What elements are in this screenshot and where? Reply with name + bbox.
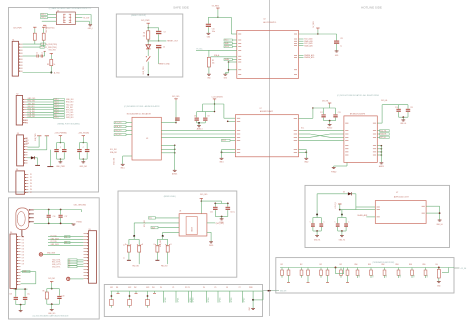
capacitor C9	[204, 112, 206, 118]
wire crystal top bus	[34, 209, 82, 211]
svg-text:SCL5: SCL5	[225, 40, 229, 42]
wire RESET_OUT	[148, 40, 166, 42]
svg-text:IN2: IN2	[134, 287, 137, 289]
svg-text:5V_REG: 5V_REG	[212, 5, 220, 7]
svg-text:ALD212900PCL: ALD212900PCL	[263, 21, 276, 24]
svg-text:RXD_I: RXD_I	[54, 99, 59, 101]
capacitor C21	[227, 203, 229, 206]
capacitor C15	[407, 105, 409, 109]
svg-text:C10: C10	[212, 29, 215, 31]
connector X2	[16, 96, 22, 126]
svg-text:SCLM: SCLM	[225, 46, 230, 48]
svg-text:PGND2: PGND2	[331, 171, 336, 173]
svg-text:(C) SAFE ISOLATED UART INTERFA: (C) SAFE ISOLATED UART INTERFACE RS232 T…	[49, 7, 92, 10]
svg-text:(TERMINATION NETWORK): (TERMINATION NETWORK)	[373, 261, 395, 264]
svg-text:IO2: IO2	[22, 242, 24, 244]
svg-text:P7: P7	[30, 192, 32, 194]
svg-text:4.7k R_B: 4.7k R_B	[335, 202, 337, 208]
svg-text:P6: P6	[30, 189, 32, 191]
supply bar 5V0 under U1 left	[43, 24, 46, 26]
svg-text:RN1: RN1	[368, 264, 371, 266]
wire U1 right pin1 to gnd	[75, 14, 91, 16]
svg-text:C15: C15	[410, 107, 413, 109]
svg-text:IO4: IO4	[413, 275, 415, 278]
svg-text:GND_I: GND_I	[120, 168, 125, 170]
junction reset mid	[148, 40, 149, 41]
svg-text:SCL_ISO: SCL_ISO	[144, 220, 146, 227]
svg-text:P2: P2	[30, 177, 32, 179]
frame F6 bottom-middle terminator strip	[104, 285, 262, 317]
op U3	[132, 117, 161, 160]
capacitor C10	[206, 24, 211, 25]
filter group F3-A	[14, 288, 28, 290]
gnd cluster HL	[324, 120, 336, 122]
svg-text:(C) 2015 ISOLATED UART AUDIO M: (C) 2015 ISOLATED UART AUDIO MODULE	[33, 314, 70, 317]
net flag row 1	[54, 98, 65, 100]
svg-text:P0: P0	[160, 287, 162, 289]
svg-text:RX: RX	[65, 242, 67, 244]
capacitor C17	[60, 209, 62, 211]
wire to C10	[208, 16, 218, 18]
junction on TXD row	[50, 72, 52, 74]
net flag row 2	[54, 101, 65, 103]
capacitor C3	[156, 31, 161, 32]
svg-text:1k: 1k	[124, 257, 126, 259]
svg-text:1k: 1k	[54, 64, 56, 66]
wire U2 lower-left pins	[229, 61, 237, 63]
net flag TXD_ISO	[41, 17, 48, 19]
svg-text:IO3: IO3	[22, 245, 24, 247]
ground PGND1	[72, 223, 76, 225]
svg-text:GPIO7: GPIO7	[244, 298, 246, 303]
svg-text:RN3: RN3	[396, 264, 399, 266]
svg-text:SAFE SIDE: SAFE SIDE	[173, 6, 189, 10]
svg-text:5V0_ISO: 5V0_ISO	[48, 278, 56, 280]
gnd bar row8	[35, 164, 40, 166]
svg-text:RN4: RN4	[409, 264, 412, 266]
svg-text:P1_TXD: P1_TXD	[51, 235, 58, 237]
svg-text:P1: P1	[41, 47, 43, 49]
connector X3	[17, 135, 24, 166]
svg-text:(5V0_ISO): (5V0_ISO)	[216, 223, 224, 225]
microphone MK1	[16, 208, 29, 230]
svg-text:C21 1u: C21 1u	[230, 211, 235, 213]
svg-text:IO9: IO9	[22, 263, 24, 265]
wire U5 top right to supply	[377, 122, 382, 124]
svg-text:ISO1540DWR I2C ISOLATOR: ISO1540DWR I2C ISOLATOR	[127, 113, 152, 116]
wire H1	[43, 253, 60, 255]
svg-text:+5V0_ISO(M): +5V0_ISO(M)	[78, 132, 89, 134]
svg-text:GPIO1: GPIO1	[177, 298, 179, 303]
svg-text:TXD_I: TXD_I	[41, 17, 46, 19]
svg-text:RX2: RX2	[128, 287, 131, 289]
svg-text:P5: P5	[215, 287, 217, 289]
svg-text:BR KELVILT2/DFN: BR KELVILT2/DFN	[350, 113, 366, 115]
capacitor C13	[335, 108, 337, 114]
svg-text:PB2_ISO: PB2_ISO	[132, 266, 139, 268]
svg-text:P4: P4	[203, 287, 205, 289]
svg-text:A_RXD(TXD): A_RXD(TXD)	[46, 43, 57, 46]
ground C11	[335, 50, 339, 52]
svg-text:GPIO5: GPIO5	[219, 298, 221, 303]
capacitor C12	[323, 108, 325, 114]
svg-text:GPIO3: GPIO3	[193, 298, 195, 303]
svg-text:RTS_I: RTS_I	[54, 104, 59, 106]
svg-text:X4: X4	[10, 232, 12, 234]
svg-text:C9: C9	[208, 115, 210, 117]
svg-text:IN1: IN1	[116, 287, 119, 289]
svg-text:RX0_LVTTL: RX0_LVTTL	[52, 262, 61, 264]
svg-text:(BIDIR LEVEL): (BIDIR LEVEL)	[164, 196, 176, 198]
capacitor C14	[398, 105, 400, 109]
svg-text:GPIO0: GPIO0	[165, 298, 167, 303]
svg-text:5V0_HL: 5V0_HL	[381, 100, 388, 102]
svg-text:DSR_ISO: DSR_ISO	[66, 117, 74, 119]
svg-text:P3: P3	[188, 287, 190, 289]
svg-text:SCL_ISO: SCL_ISO	[115, 122, 122, 124]
svg-text:C18: C18	[9, 294, 12, 296]
wire U6 right 5V0	[207, 222, 215, 224]
svg-text:R3: R3	[47, 64, 49, 66]
gnd F4 caps	[215, 216, 228, 218]
ground R5	[207, 73, 211, 75]
svg-text:RN5: RN5	[423, 264, 426, 266]
resistor R3	[50, 59, 53, 65]
svg-text:ADUM1250ARZ: ADUM1250ARZ	[260, 110, 274, 113]
svg-text:P4: P4	[30, 183, 32, 185]
svg-text:10u: 10u	[27, 294, 30, 296]
frame F4 i2c level box	[118, 191, 237, 277]
svg-text:GND2: GND2	[304, 161, 308, 163]
svg-text:SCL2: SCL2	[222, 140, 226, 142]
svg-text:(SERIAL PORT ISOLATED): (SERIAL PORT ISOLATED)	[58, 123, 81, 126]
stem MK1	[21, 230, 23, 237]
svg-text:IO1: IO1	[22, 239, 24, 241]
net flag row 8	[54, 116, 65, 118]
svg-text:RESET_OUT: RESET_OUT	[167, 41, 179, 43]
svg-text:5V0_ISO: 5V0_ISO	[200, 194, 208, 196]
net flag row 3	[54, 104, 65, 106]
svg-text:IO2: IO2	[386, 275, 388, 278]
wire U3 pin to rail	[161, 122, 176, 124]
svg-text:RX0_ISO: RX0_ISO	[115, 130, 122, 132]
frame F1 safe-side upper-left sheet	[9, 8, 99, 193]
net flag row 4	[54, 106, 65, 108]
wire X2 row 3	[26, 104, 53, 106]
resistor R4	[147, 28, 149, 31]
svg-text:R: R	[142, 244, 143, 246]
capacitor C8	[196, 112, 198, 118]
svg-text:C20: C20	[210, 211, 213, 213]
svg-text:HOTLINE SIDE: HOTLINE SIDE	[361, 6, 382, 10]
svg-text:SCL_ISO: SCL_ISO	[110, 149, 117, 151]
svg-text:GPIO6: GPIO6	[231, 298, 233, 303]
supply drop 1 5V0_PWR	[37, 135, 41, 137]
svg-text:GND_HL: GND_HL	[314, 239, 321, 241]
wire U6 right gnd	[207, 231, 211, 233]
wire U4 top right	[299, 117, 313, 119]
svg-text:5V0_PWR: 5V0_PWR	[35, 133, 37, 141]
svg-text:U3: U3	[146, 138, 148, 140]
svg-text:TXD_I: TXD_I	[54, 101, 59, 103]
svg-text:IN3: IN3	[152, 287, 155, 289]
svg-text:IO8: IO8	[22, 260, 24, 262]
svg-text:1k: 1k	[124, 244, 126, 246]
svg-text:DTR_I: DTR_I	[54, 109, 59, 111]
bus F6	[110, 290, 262, 292]
net flags U5 right	[377, 130, 379, 132]
svg-text:RESET_GND: RESET_GND	[159, 64, 171, 66]
svg-text:TX0_ISO: TX0_ISO	[115, 134, 122, 136]
wires U2 right with labels	[299, 38, 304, 40]
svg-text:3V3: 3V3	[26, 140, 29, 142]
svg-text:A_TXD: A_TXD	[54, 71, 60, 74]
frame F5 hotline regulator box	[305, 185, 450, 247]
svg-text:100n: 100n	[212, 31, 216, 33]
svg-text:GND_PWR: GND_PWR	[143, 66, 145, 75]
svg-text:IO5: IO5	[22, 251, 24, 253]
net flags U2 left	[224, 39, 232, 41]
wire F6 bus to F7	[263, 290, 280, 292]
svg-text:P2: P2	[185, 287, 187, 289]
capacitor C4	[156, 45, 161, 46]
svg-text:C_B 100N/25V: C_B 100N/25V	[212, 97, 224, 99]
wire H2 to X5	[70, 278, 84, 280]
svg-text:C19: C19	[62, 296, 65, 298]
svg-text:X3: X3	[17, 133, 19, 135]
svg-text:IO0: IO0	[359, 275, 361, 278]
capacitor C1	[36, 55, 38, 58]
svg-text:SLAVE_ADR: SLAVE_ADR	[357, 214, 368, 217]
wire cluster bus	[203, 103, 224, 105]
svg-text:GND1: GND1	[219, 161, 223, 163]
net flag SDA5M	[224, 58, 232, 60]
mount hole H1	[39, 253, 42, 256]
i2c crossing wires U4 to U5	[299, 130, 344, 132]
ground U2 left	[223, 73, 227, 75]
wires U3 lower right to gnd	[161, 144, 174, 146]
svg-text:PGND1: PGND1	[76, 221, 82, 223]
svg-text:R5: R5	[212, 60, 214, 62]
wire U1 left pins	[48, 14, 57, 16]
svg-text:1u: 1u	[340, 45, 342, 47]
svg-text:TX0_LVTTL: TX0_LVTTL	[52, 260, 61, 262]
capacitor C7 on rail	[175, 118, 180, 119]
svg-text:GND_ISO8: GND_ISO8	[51, 244, 59, 246]
svg-text:X1: X1	[12, 40, 14, 42]
cap pair HL-1	[316, 214, 318, 216]
svg-text:INT_HL: INT_HL	[380, 137, 386, 139]
svg-text:R: R	[154, 244, 155, 246]
svg-text:C14: C14	[395, 107, 398, 109]
svg-text:GND_ISO8: GND_ISO8	[51, 238, 59, 240]
wire X2 row 2	[26, 101, 53, 103]
svg-text:C17: C17	[65, 216, 68, 218]
wire U1 right pin3 to gnd	[75, 20, 89, 22]
svg-text:C12: C12	[320, 112, 323, 114]
wire loop X4 gnd	[21, 271, 36, 273]
wire U5 bottom left gnd	[346, 162, 348, 166]
ground C10	[207, 32, 211, 34]
svg-text:(C) 2015 HOTLINE ISOLATOR - AL: (C) 2015 HOTLINE ISOLATOR - ALL RIGHTS R…	[337, 94, 380, 97]
crossing X	[310, 134, 330, 137]
svg-text:C3: C3	[164, 31, 166, 33]
wire X1 pin2 row	[23, 46, 40, 48]
switch S1	[147, 49, 149, 56]
svg-text:R6: R6	[43, 290, 45, 292]
connector X6	[16, 171, 25, 194]
svg-text:C11: C11	[340, 38, 343, 40]
svg-text:GND_HL: GND_HL	[339, 239, 346, 241]
svg-text:IO7: IO7	[22, 257, 24, 259]
svg-text:GND_ISO8: GND_ISO8	[47, 253, 55, 255]
svg-text:P1: P1	[30, 174, 32, 176]
svg-text:DSR_I: DSR_I	[54, 112, 59, 114]
wire X2 row 6	[26, 111, 53, 113]
svg-text:DSR_ISO: DSR_ISO	[28, 116, 36, 118]
svg-text:IO1: IO1	[372, 275, 374, 278]
pins MK1	[29, 209, 34, 211]
svg-text:SDA5_A2D: SDA5_A2D	[304, 44, 313, 47]
capacitor C20	[214, 203, 216, 206]
svg-text:IO3: IO3	[400, 275, 402, 278]
svg-text:RX1: RX1	[110, 287, 113, 289]
junction 5V_REG	[217, 17, 218, 18]
svg-text:C: C	[310, 221, 311, 223]
svg-text:R4: R4	[143, 33, 145, 35]
svg-text:P5: P5	[30, 186, 32, 188]
svg-text:C4: C4	[163, 46, 165, 48]
wire 5V_REG to U2	[218, 16, 231, 18]
isolation divider line	[269, 0, 271, 316]
wires U7 right to gnd	[426, 205, 440, 207]
connector X5	[89, 231, 97, 284]
svg-text:5V0_PWR: 5V0_PWR	[141, 20, 150, 22]
svg-text:DCD_I: DCD_I	[54, 117, 59, 119]
svg-text:GND_HL: GND_HL	[400, 123, 406, 125]
wire F5 to U7 vin	[356, 206, 370, 208]
svg-text:SCL: SCL	[301, 127, 304, 129]
wire X2 row 8	[26, 117, 53, 119]
svg-text:P7: P7	[239, 287, 241, 289]
net flag row 5	[54, 109, 65, 111]
frame F7 bottom-right terminator strip	[276, 258, 454, 293]
wire U2 pin right top to 5V_REG tap	[299, 33, 318, 35]
svg-text:RXD_I: RXD_I	[41, 14, 46, 16]
capacitor C11	[334, 41, 339, 42]
svg-text:GND_PWR: GND_PWR	[56, 166, 65, 168]
wire to F4 caps	[201, 200, 221, 202]
svg-text:SDA5M_A2D: SDA5M_A2D	[304, 56, 315, 59]
mount hole H2	[67, 277, 70, 280]
gnd U5 cluster	[399, 116, 408, 118]
svg-text:C: C	[324, 221, 325, 223]
svg-text:10k: 10k	[143, 35, 146, 37]
svg-text:X6: X6	[16, 169, 18, 171]
svg-text:10k: 10k	[212, 62, 215, 64]
wires U6 left rows	[155, 217, 179, 219]
svg-text:C: C	[348, 221, 349, 223]
frame F2 reset box	[116, 14, 183, 77]
net flag A_RXD	[41, 43, 46, 45]
net flag row 6	[54, 111, 65, 113]
svg-text:RX3: RX3	[146, 287, 149, 289]
svg-text:P3: P3	[30, 180, 32, 182]
svg-text:P6: P6	[226, 287, 228, 289]
svg-text:5V0_HL: 5V0_HL	[322, 101, 329, 103]
svg-text:5V_REG: 5V_REG	[313, 21, 315, 28]
bus cap cluster HL	[313, 107, 336, 109]
wire X3 row5	[28, 149, 47, 151]
svg-text:TX: TX	[65, 236, 67, 238]
svg-text:U7: U7	[396, 192, 398, 194]
diode D1 on row8	[28, 157, 38, 159]
svg-text:+5V_SH: +5V_SH	[460, 268, 467, 270]
capacitor C2	[40, 55, 42, 58]
resistor R2	[42, 26, 45, 28]
gnd cap cluster	[197, 122, 206, 124]
diode D2	[146, 45, 151, 49]
connector X4	[10, 234, 17, 288]
wire reset bottom	[147, 62, 149, 75]
svg-text:+5V0_PWR(M): +5V0_PWR(M)	[54, 132, 67, 134]
wire X1 cap row	[23, 55, 37, 57]
bus F7	[280, 267, 454, 269]
svg-text:D3: D3	[343, 192, 345, 194]
svg-text:PB1_ISO: PB1_ISO	[161, 266, 168, 268]
wire X1 pin1 row	[23, 43, 41, 45]
supply drop 2	[45, 135, 49, 137]
svg-text:CTS_I: CTS_I	[54, 107, 59, 109]
wire X2 row 1	[26, 98, 53, 100]
net flags U3 left	[114, 122, 126, 124]
svg-text:RN2: RN2	[382, 264, 385, 266]
svg-text:IO4: IO4	[22, 248, 24, 250]
svg-text:U6: U6	[179, 210, 181, 212]
net flag row 7	[54, 114, 65, 116]
svg-text:TX_OUT: TX_OUT	[83, 17, 90, 19]
wire cluster to U4 pin1	[223, 104, 225, 118]
wire X3 row4	[28, 146, 40, 148]
svg-text:GPIO4: GPIO4	[208, 298, 210, 303]
net flag RXD_ISO	[41, 14, 48, 16]
svg-text:R: R	[171, 244, 172, 246]
junction reset top	[148, 27, 149, 28]
svg-text:PGND2: PGND2	[327, 128, 332, 130]
svg-text:SCL: SCL	[149, 218, 152, 220]
stub U4 pin2	[228, 120, 236, 122]
net flag 4th row	[222, 139, 231, 141]
wire crystal bottom bus	[34, 222, 73, 224]
svg-text:C8: C8	[194, 115, 196, 117]
svg-text:CN1_GROUND: CN1_GROUND	[74, 204, 87, 206]
svg-text:GND_HL: GND_HL	[436, 224, 443, 226]
pull-up pair Q2 PB1_ISO	[162, 235, 164, 237]
loop F7 right	[442, 272, 449, 274]
svg-text:SCL_HL: SCL_HL	[380, 130, 386, 132]
frame F3 lower-left sheet	[9, 198, 100, 319]
connector X1	[12, 41, 18, 76]
wires U5 lower right dots	[377, 145, 381, 147]
wires U4 lower-left to gnd	[222, 149, 236, 151]
loop F7 left	[335, 267, 337, 269]
svg-text:ADPD2140 0.5 BT: ADPD2140 0.5 BT	[394, 195, 410, 198]
svg-text:C: C	[334, 221, 335, 223]
wire U3 bottom left to gnd	[123, 155, 132, 157]
svg-text:X2: X2	[16, 94, 18, 96]
svg-text:(C) ISOLATED I2C BUS - ADUM IS: (C) ISOLATED I2C BUS - ADUM ISOLATOR	[124, 105, 160, 108]
svg-text:GND_ISO: GND_ISO	[114, 157, 116, 165]
